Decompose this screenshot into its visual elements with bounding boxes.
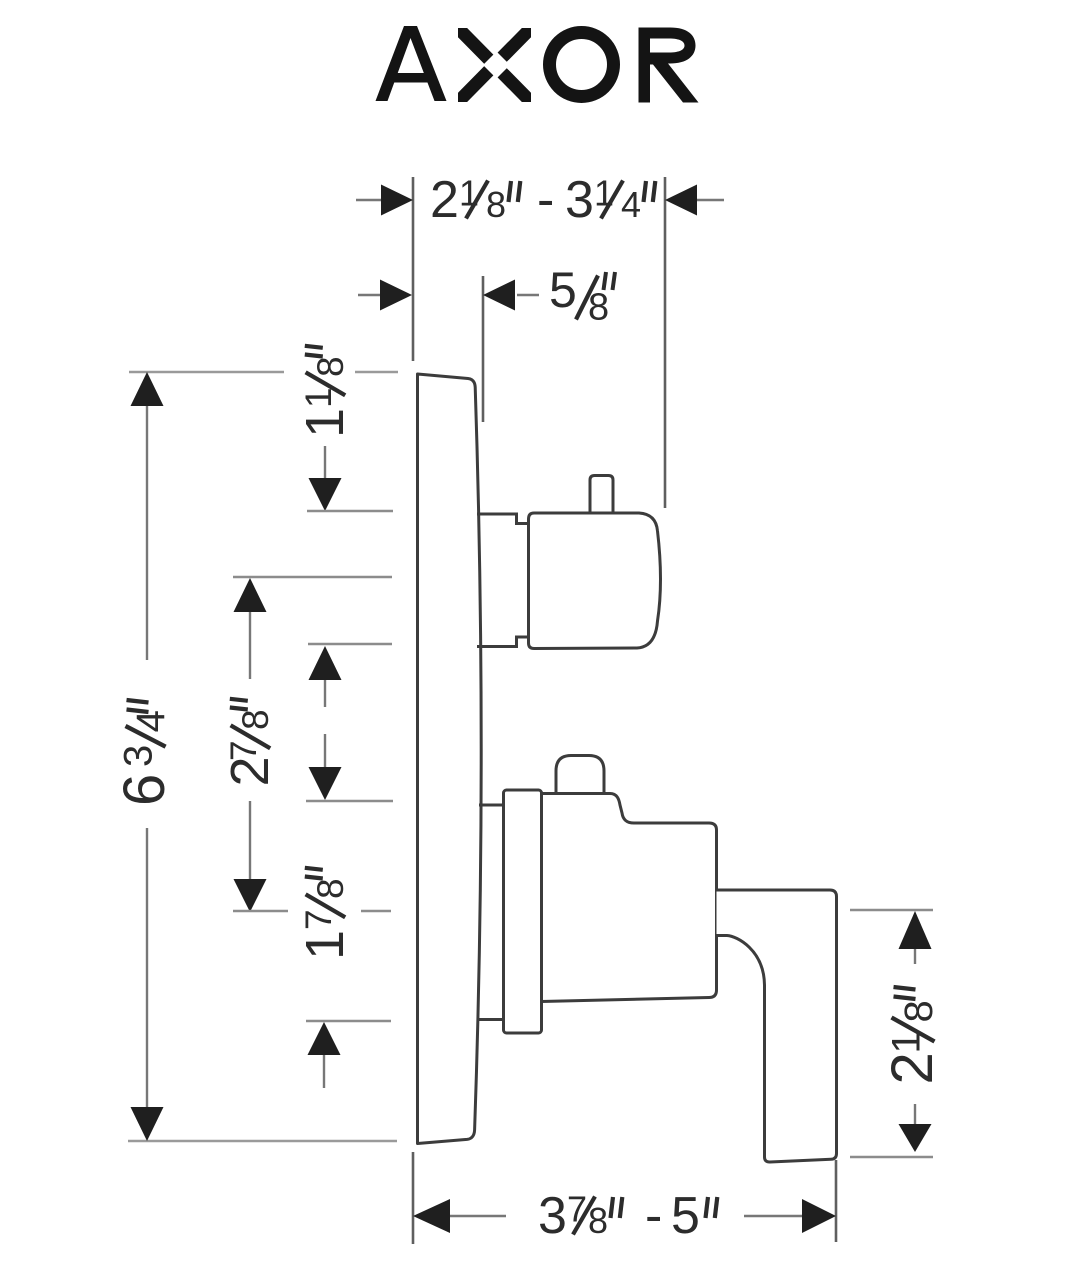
svg-text:8: 8: [486, 184, 506, 225]
svg-text:5: 5: [549, 262, 577, 318]
top valve stem knob: [590, 476, 613, 513]
extension line, left end of dim 3 7/8"-5": [412, 1152, 415, 1244]
svg-text:-: -: [537, 171, 554, 229]
tick, handle top level right side (y=910): [850, 909, 933, 912]
dim label 2 1/8" right (rotated): [880, 987, 945, 1085]
top valve collar lower notch line: [477, 637, 529, 647]
AXOR logo letter X: [457, 27, 532, 103]
dim 1 1/8" line: [324, 446, 326, 479]
extension line, right end of dim 3 7/8"-5": [835, 1160, 838, 1242]
extension line, wall/plate face (left end of top dims): [412, 177, 415, 361]
svg-text:2: 2: [880, 1052, 945, 1084]
reference tick, plate top level (left segment): [129, 371, 284, 374]
lower-left arrowhead (points up at y=1021): [308, 1022, 341, 1055]
dim 5/8" right tail: [517, 294, 539, 296]
middle dim tail below upper arrow: [324, 680, 326, 707]
svg-text:1: 1: [594, 173, 614, 214]
dim 2 7/8" line upper segment: [249, 612, 251, 679]
dim 5/8" left tail: [358, 294, 381, 296]
dim 3 7/8"-5" left tail: [450, 1215, 506, 1217]
dim 6 3/4" bottom arrowhead (points down): [131, 1107, 164, 1141]
top valve collar upper notch line: [477, 514, 529, 524]
tick, top valve lower edge (y=644): [308, 643, 392, 646]
middle dim tail above lower arrow: [324, 734, 326, 768]
tick, top valve centerline (y=577): [233, 576, 392, 579]
lower valve flange (mounting escutcheon): [504, 790, 542, 1033]
dim 6 3/4" line lower segment: [146, 828, 148, 1108]
svg-text:5: 5: [671, 1187, 700, 1245]
dim 2 1/8"-3 1/4" left arrowhead (points right): [381, 185, 413, 216]
dim 2 1/8" (right) top arrowhead (points up): [899, 911, 932, 949]
AXOR logo letter A: [376, 26, 447, 101]
dim 3 7/8"-5" right tail: [744, 1215, 802, 1217]
svg-text:4: 4: [621, 184, 641, 225]
svg-text:-: -: [645, 1187, 662, 1245]
svg-text:6: 6: [112, 774, 177, 806]
svg-text:1: 1: [295, 408, 355, 438]
lower-left arrow tail: [323, 1055, 325, 1088]
dim 5/8" arrowhead (points left): [483, 280, 515, 311]
reference tick, plate bottom level: [128, 1140, 397, 1143]
extension line, right end of dim 5/8": [482, 276, 485, 422]
dim 2 7/8" bottom arrowhead (points down): [234, 879, 267, 912]
middle dim lower arrowhead (points down at y=801): [309, 767, 342, 800]
svg-text:8: 8: [897, 1000, 941, 1022]
tick, lower valve centerline left segment (y=911): [233, 910, 288, 913]
dim label 2 7/8" (rotated): [220, 699, 280, 787]
dim 2 1/8"-3 1/4" left tail: [356, 199, 383, 201]
svg-text:8: 8: [310, 356, 351, 377]
dim label 1 7/8" (rotated): [295, 868, 355, 960]
extension line, right end of dim 2 1/8"-3 1/4": [664, 177, 667, 508]
dim label 1 1/8" (rotated): [295, 346, 355, 438]
tick, lower valve upper edge (y=801): [306, 800, 393, 803]
dim label 3 7/8" - 5": [538, 1187, 717, 1245]
lower valve body (volume control): [542, 794, 717, 1002]
dim 1 1/8" arrowhead (points down): [309, 478, 342, 511]
lower valve stem knob (dome): [556, 756, 604, 793]
reference tick, plate top level (right segment): [355, 371, 398, 374]
handle hub and lever: [717, 890, 837, 1162]
tick, lower valve centerline right segment (y=911): [361, 910, 391, 913]
tick, top valve upper edge (y=511): [307, 510, 393, 513]
dim 2 1/8"-3 1/4" right arrowhead (points left): [665, 185, 697, 216]
svg-text:7: 7: [567, 1189, 587, 1230]
dim 2 1/8" (right) lower tail: [914, 1104, 916, 1125]
dim label 6 3/4" (rotated): [112, 700, 177, 806]
AXOR logo letter R: [639, 28, 699, 103]
tick, handle bottom level right side (y=1157): [850, 1156, 933, 1159]
dim 2 1/8" (right) bottom arrowhead (points down): [899, 1124, 932, 1152]
svg-text:8: 8: [310, 878, 351, 899]
svg-text:3: 3: [565, 171, 594, 229]
svg-text:4: 4: [129, 710, 173, 732]
svg-text:8: 8: [235, 709, 276, 730]
dim 6 3/4" top arrowhead (points up): [131, 372, 164, 406]
dim 2 7/8" top arrowhead (points up): [234, 578, 267, 612]
svg-text:1: 1: [459, 173, 479, 214]
middle dim upper arrowhead (points up at y=644): [309, 646, 342, 680]
top valve thermostat handle body: [529, 513, 661, 649]
svg-text:3: 3: [117, 745, 161, 767]
lower valve lower connector line (plate to flange): [479, 1018, 504, 1021]
wall plate (escutcheon, side view): [418, 374, 482, 1144]
svg-text:2: 2: [430, 171, 459, 229]
dim 2 1/8"-3 1/4" right tail: [697, 199, 724, 201]
lower valve upper connector line (plate to flange): [479, 804, 504, 807]
svg-text:8: 8: [588, 1200, 608, 1241]
dim 3 7/8"-5" left arrowhead (points left): [413, 1199, 450, 1233]
svg-text:3: 3: [538, 1187, 567, 1245]
dim 3 7/8"-5" right arrowhead (points right): [802, 1199, 836, 1233]
AXOR logo letter O: [550, 33, 614, 97]
svg-text:1: 1: [295, 930, 355, 960]
dim 2 1/8" (right) upper tail: [914, 949, 916, 964]
dim 6 3/4" line upper segment: [146, 405, 148, 660]
dim label 2 1/8" - 3 1/4": [430, 171, 655, 229]
dim 2 7/8" line lower segment: [249, 801, 251, 880]
svg-text:8: 8: [588, 287, 609, 329]
dim label 5/8": [549, 262, 615, 329]
dim 5/8" arrowhead on wall line (points right): [380, 280, 412, 311]
tick, lower connector line level (y=1021): [306, 1020, 391, 1023]
